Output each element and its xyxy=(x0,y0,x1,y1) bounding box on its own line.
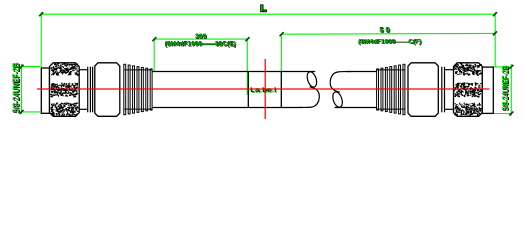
right diameter dimension: dimension line xyxy=(510,64,512,116)
dimension L: left extension line xyxy=(40,12,42,67)
left diameter dimension: bottom extension line xyxy=(22,111,41,113)
dimension L: right extension line xyxy=(494,12,496,66)
cable break left: lens curve xyxy=(305,71,318,89)
right diameter dimension: tick top xyxy=(509,65,513,69)
left diameter dimension: top extension line xyxy=(22,66,41,68)
cable right segment: top jacket line xyxy=(346,71,377,73)
right diameter dimension: top extension line xyxy=(494,66,512,68)
right diameter dimension: tick bottom xyxy=(509,112,513,116)
right diameter dimension: bottom extension line xyxy=(494,113,512,115)
left connector: knurl band 1 speckle xyxy=(51,63,79,75)
left connector: ring 1 xyxy=(87,67,89,113)
dimension L: tick right xyxy=(493,12,497,16)
left diameter dimension: dimension line xyxy=(21,64,23,114)
label on cable: right edge xyxy=(280,72,282,108)
dimension L: text "L" xyxy=(261,5,267,12)
left connector: neck top line xyxy=(79,69,87,71)
right connector: knurl band 1 speckle xyxy=(454,64,482,76)
left connector: interface face xyxy=(41,68,49,113)
right connector: ring 2 xyxy=(444,67,446,113)
cable break right: upper bulge curve xyxy=(330,72,351,93)
right connector: body cylinder xyxy=(408,63,438,117)
cable break right: lens curve xyxy=(331,91,344,109)
right connector: coupling nut outline xyxy=(454,63,483,117)
knurl speckle re-over red stripe xyxy=(50,82,482,97)
svg-text:5/8-24UNEF-2B: 5/8-24UNEF-2B xyxy=(11,62,21,112)
svg-text:(8M4dF1000——C(F): (8M4dF1000——C(F) xyxy=(359,39,422,46)
left diameter dimension: tick bottom xyxy=(20,110,24,114)
dimension 50: dimension line xyxy=(281,32,495,35)
left connector: strain relief ribs xyxy=(125,69,153,71)
right connector: neck top line xyxy=(445,69,454,71)
left connector: knurl band 2 speckle xyxy=(50,83,78,98)
left connector: coupling nut outline xyxy=(50,63,80,117)
right connector: interface face xyxy=(482,67,493,113)
dimension L: tick left xyxy=(39,12,43,16)
right connector: neck bottom line xyxy=(445,108,454,110)
right connector: knurl band 3 speckle xyxy=(454,103,481,117)
dimension 50: tick left xyxy=(280,32,284,36)
right connector: ring 1 xyxy=(441,67,443,113)
left connector: ring 2 xyxy=(89,67,91,113)
svg-text:5/8-24UNEF-2B: 5/8-24UNEF-2B xyxy=(500,65,510,110)
dimension 300: left extension line xyxy=(153,39,155,71)
left connector: body cylinder xyxy=(95,63,120,117)
dimension L: dimension line xyxy=(41,13,495,15)
svg-text:300: 300 xyxy=(195,33,207,40)
cable break left: lower bulge curve xyxy=(298,87,319,108)
dimension 300: right extension line xyxy=(246,39,248,95)
svg-text:0: 0 xyxy=(386,27,391,34)
dimension 50: tick right xyxy=(493,31,497,35)
svg-text:5: 5 xyxy=(380,27,384,34)
cable left segment: top jacket line xyxy=(153,71,316,73)
label on cable: left edge xyxy=(247,72,249,108)
left connector: neck bottom line xyxy=(79,108,87,110)
dimension 300: tick left xyxy=(152,37,156,41)
dimension 300: dimension line xyxy=(154,38,247,40)
dimension 50: left extension line xyxy=(280,34,282,71)
left connector: ring 3 xyxy=(92,67,94,113)
red label centerline vertical xyxy=(264,59,266,119)
cable left segment: bottom jacket line xyxy=(153,107,303,109)
cable right segment: bottom jacket line xyxy=(334,107,376,109)
left connector: knurl band 3 speckle xyxy=(50,103,78,117)
svg-text:(8M4dF1000——88C(E): (8M4dF1000——88C(E) xyxy=(165,41,236,48)
red centerline horizontal (over drawing) xyxy=(37,88,490,90)
dimension 300: tick right xyxy=(246,37,250,41)
right connector: strain relief ribs xyxy=(377,69,406,71)
left diameter dimension: tick top xyxy=(20,65,24,69)
right connector: knurl band 2 speckle xyxy=(454,82,482,97)
